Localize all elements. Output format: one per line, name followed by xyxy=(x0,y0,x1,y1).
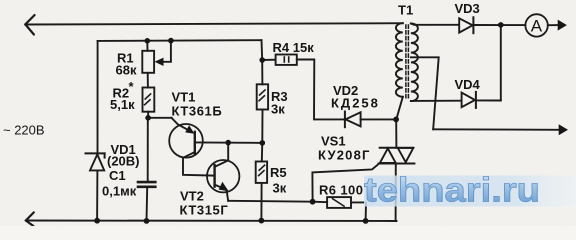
wire ammeter to plus output arrow xyxy=(548,24,560,26)
wire VD4 cathode right xyxy=(476,99,501,101)
T1 core xyxy=(405,25,407,99)
transistor VT2 body circle xyxy=(207,160,239,192)
watermark highlight box xyxy=(364,176,576,207)
R1 wiper arrow xyxy=(159,41,171,62)
wire R4 right down to VD2 xyxy=(297,59,345,119)
svg-text:VS1: VS1 xyxy=(321,134,346,149)
svg-text:VT2: VT2 xyxy=(180,189,204,204)
node R1 wiper junction xyxy=(168,38,174,44)
wire node A to VT1 emitter xyxy=(148,117,171,119)
VS1 gate wire xyxy=(312,164,378,202)
svg-text:3к: 3к xyxy=(271,102,285,117)
node R3/R5 junction xyxy=(260,140,266,146)
node gate/R6 junction xyxy=(310,199,316,205)
VS1 cathode lead to bottom mains xyxy=(395,164,397,222)
wire T1 primary bottom lead xyxy=(396,97,403,120)
wire bottom AC mains line xyxy=(26,220,397,223)
wire R6 right to bottom mains xyxy=(351,202,366,221)
wire VD3 cathode to ammeter xyxy=(473,24,525,26)
transformer T1 primary winding xyxy=(396,23,403,97)
svg-text:КТ361Б: КТ361Б xyxy=(172,104,223,119)
wire VD4 cathode up to rectifier node xyxy=(500,25,502,101)
wire secondary top tap to VD3 xyxy=(411,24,459,25)
thyristor VS1 triac symbol xyxy=(380,147,414,149)
VT1 base bar xyxy=(194,132,196,154)
node R4/R3 junction xyxy=(259,57,265,63)
wire top AC mains line xyxy=(25,23,403,24)
svg-text:КУ208Г: КУ208Г xyxy=(318,148,371,163)
svg-text:VT1: VT1 xyxy=(172,90,196,105)
zener diode VD1 xyxy=(86,152,105,154)
VT1 collector wire to VT2 base xyxy=(183,152,214,176)
svg-text:R4 15к: R4 15к xyxy=(273,40,315,55)
svg-text:0,1мк: 0,1мк xyxy=(102,184,137,199)
wire VD2 anode to VS1 anode node xyxy=(361,118,397,120)
VT1 emitter with PNP arrow xyxy=(172,118,191,131)
resistor R4 15k xyxy=(262,59,275,61)
capacitor C1 0,1mk xyxy=(147,118,149,182)
resistor R2 5,1k xyxy=(143,88,155,112)
wire secondary center tap to bottom output xyxy=(411,57,439,129)
node R6 bottom junction xyxy=(363,218,369,224)
resistor R3 3k xyxy=(261,60,263,84)
wire VT1 base to R3/R5 node xyxy=(195,141,262,144)
wire left branch vertical (top mains down to VD1) xyxy=(97,41,99,153)
svg-text:А: А xyxy=(531,16,543,35)
svg-text:КТ315Г: КТ315Г xyxy=(180,203,229,218)
diode VD2 cathode-left xyxy=(344,112,346,128)
arrow top-left AC input xyxy=(25,15,34,35)
arrow bottom-left AC input xyxy=(26,212,34,226)
diode VD4 xyxy=(462,93,475,108)
node R2/C1/VT1 emitter junction xyxy=(145,115,151,121)
resistor R5 3k xyxy=(261,143,264,162)
svg-text:R6 100: R6 100 xyxy=(319,183,363,198)
wire bottom output with arrow xyxy=(433,128,560,131)
svg-text:C1: C1 xyxy=(109,168,126,183)
node VT2 collector junction xyxy=(225,140,231,146)
node VD2/T1/VS1 anode junction xyxy=(393,117,399,123)
ammeter PA1 circle xyxy=(525,14,547,36)
svg-text:Т1: Т1 xyxy=(398,3,413,18)
VT2 collector wire up to node xyxy=(215,143,229,167)
svg-text:tehnari.ru: tehnari.ru xyxy=(364,172,540,210)
svg-text:КД258: КД258 xyxy=(331,96,380,111)
svg-text:5,1к: 5,1к xyxy=(110,97,135,112)
VT2 base bar xyxy=(213,165,215,187)
svg-text:(20В): (20В) xyxy=(107,154,140,169)
svg-text:68к: 68к xyxy=(116,63,137,78)
wire secondary bottom tap to VD4 xyxy=(411,100,462,102)
resistor R6 100 xyxy=(313,201,328,204)
node VD1 bottom junction xyxy=(94,218,100,224)
VT2 emitter with NPN arrow xyxy=(215,185,229,201)
transformer T1 secondary winding xyxy=(411,24,418,102)
wire top branch horizontal (to R1 and R4 column) xyxy=(98,39,262,42)
thyristor VS1 anode lead xyxy=(395,119,397,147)
node R5 bottom junction xyxy=(259,218,265,224)
node R1 top junction xyxy=(145,38,151,44)
diode VD3 xyxy=(459,18,472,32)
svg-text:R5: R5 xyxy=(270,165,287,180)
svg-text:VD4: VD4 xyxy=(455,77,481,92)
wire VT2 emitter to gate node xyxy=(228,200,312,203)
svg-text:3к: 3к xyxy=(273,181,287,196)
svg-text:VD3: VD3 xyxy=(455,1,480,16)
node C1 bottom junction xyxy=(144,218,150,224)
node VD3/VD4 cathode junction xyxy=(498,22,504,28)
svg-text:~ 220В: ~ 220В xyxy=(3,123,45,138)
transistor VT1 body circle xyxy=(169,124,203,158)
wire drop to R4/R3 node xyxy=(261,40,264,60)
resistor R1 (trimmer 68k) xyxy=(142,51,154,73)
